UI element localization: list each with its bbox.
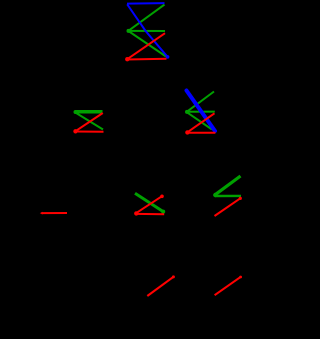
- node: red vertex blob (cluster C): [73, 129, 77, 133]
- wire: green horizontal middle (cluster A): [128, 30, 165, 32]
- wire: thick green diagonal (cluster E): [135, 193, 163, 211]
- wire: green diagonal up (cluster A): [128, 5, 164, 31]
- wire: red diagonal up (cluster C): [75, 113, 103, 131]
- node: red vertex blob (cluster B): [185, 130, 189, 134]
- wire: red horizontal bottom (cluster E): [136, 213, 164, 215]
- wire: red horizontal bottom (cluster A): [127, 58, 167, 61]
- wire: green horizontal (cluster F): [215, 195, 241, 198]
- wire: thick blue diagonal (cluster B): [187, 91, 216, 132]
- wire: green horizontal (cluster B): [187, 111, 215, 113]
- node: red top end blob (cluster E): [160, 195, 164, 199]
- wire: green diagonal down (cluster B): [187, 112, 212, 129]
- wire: green diagonal down (cluster A): [128, 31, 166, 57]
- wire: red diagonal up (cluster B): [187, 113, 214, 132]
- node: green arrowhead blob (cluster F): [213, 193, 217, 197]
- wire: red diagonal (cluster G, bottom center): [147, 277, 173, 296]
- node: red vertex blob (cluster A): [125, 57, 129, 61]
- node: red arrowhead blob (cluster H): [239, 276, 242, 279]
- wire: blue diagonal (cluster A, slight bend): [127, 4, 168, 57]
- node: green vertex blob (cluster C): [74, 110, 78, 114]
- wire: thick green horizontal bar (cluster C): [75, 110, 103, 114]
- wire: red horizontal bottom (cluster B): [187, 132, 215, 134]
- node: red arrowhead blob (cluster G): [172, 275, 175, 278]
- wire: red horizontal segment (cluster D, left middle): [42, 212, 68, 214]
- wire: green diagonal down (cluster C): [75, 113, 103, 130]
- wire: red horizontal bottom (cluster C): [75, 131, 103, 133]
- wire: red diagonal up (cluster E): [136, 196, 162, 213]
- wire: thick green diagonal (cluster F): [215, 176, 241, 195]
- wire: red diagonal up (cluster A): [127, 33, 165, 59]
- wire: blue horizontal top (cluster A): [127, 2, 165, 5]
- wire: red diagonal (cluster H, bottom right): [215, 277, 241, 295]
- node: green vertex blob (cluster A): [127, 29, 131, 33]
- node: blue end blob (cluster A): [166, 55, 170, 59]
- node: green vertex blob (cluster B): [185, 110, 189, 114]
- node: red left taper (cluster D): [40, 212, 43, 215]
- node: red top end blob (cluster F): [239, 197, 242, 200]
- wire: red diagonal (cluster F): [215, 198, 241, 216]
- wire: green diagonal up (cluster B): [187, 92, 214, 112]
- node: red vertex blob (cluster E): [134, 211, 138, 215]
- node: green end blob (cluster E): [161, 210, 165, 214]
